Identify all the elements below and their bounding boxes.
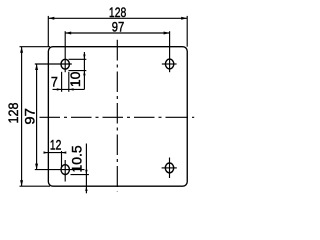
dimension 128 top: extension line left [47, 16, 49, 47]
hole bottom-left horizontal crosshair / extension [35, 169, 85, 171]
svg-text:10: 10 [67, 71, 83, 87]
dimension 10 (slot height): extension line top [69, 58, 87, 60]
svg-text:10.5: 10.5 [68, 145, 84, 172]
svg-text:97: 97 [112, 19, 125, 35]
dimension 7: right arrow (outside, pointing left) [69, 88, 74, 90]
dimension 10: top arrow (outside, pointing down) [83, 55, 85, 60]
dimension 10: dimension line vertical [83, 52, 85, 89]
centerline horizontal [40, 116, 195, 118]
plate outline [48, 47, 187, 187]
dimension 7: dimension line [53, 88, 85, 90]
dimension 12 (edge distance): extension line right [61, 151, 63, 167]
dimension 128 top: right arrow [181, 17, 187, 20]
dimension 7 (slot width): extension line left [61, 72, 63, 92]
hole bottom-right (slot 7x10) [165, 163, 173, 173]
dimension 12: dimension line [44, 152, 66, 154]
dimension 12: left arrow (outside, pointing right) [44, 151, 49, 153]
svg-text:128: 128 [109, 4, 127, 20]
hole bottom-left (slot 7x10) [61, 165, 69, 175]
dimension 97 top: dimension line [65, 32, 169, 34]
dimension 7: left arrow (outside, pointing right) [57, 88, 62, 90]
dimension 128 left: extension line bottom [20, 185, 51, 187]
dimension 128 left: dimension line [21, 47, 23, 187]
svg-text:12: 12 [50, 137, 62, 153]
hole bottom-left vertical crosshair [64, 160, 66, 182]
dimension 128 top: extension line right [186, 16, 188, 47]
dimension 10.5: dimension line vertical [85, 144, 87, 194]
dimension 97 top: right arrow [164, 32, 170, 35]
hole top-right vertical crosshair / 97 extension [169, 31, 171, 72]
hole top-left (slot 7x10) [61, 59, 69, 69]
hole top-right horizontal crosshair [162, 63, 177, 65]
centerline vertical [116, 40, 118, 192]
dimension 128 top: left arrow [48, 17, 54, 20]
dimension 10.5: top arrow (outside, pointing down) [85, 170, 87, 175]
hole bottom-right horizontal crosshair [162, 167, 177, 169]
dimension 128 left: top arrow [20, 47, 23, 53]
svg-text:128: 128 [5, 102, 21, 123]
dimension 128 left: bottom arrow [20, 180, 23, 186]
hole top-left vertical crosshair / 97 extension [64, 31, 66, 72]
svg-text:97: 97 [21, 108, 37, 125]
dimension 97 top: left arrow [65, 32, 71, 35]
dimension 7 (slot width): extension line right [68, 72, 70, 92]
dimension 97 left: dimension line [36, 64, 38, 170]
dimension 10 (slot height): extension line bottom [69, 70, 87, 72]
dimension 97 left: bottom arrow [35, 164, 38, 170]
dimension 10.5: bottom arrow (outside, pointing up) [85, 186, 87, 191]
hole top-left horizontal crosshair / 97 extension [35, 63, 72, 65]
dimension 10: bottom arrow (outside, pointing up) [83, 71, 85, 76]
hole top-right (slot 7x10) [165, 59, 173, 69]
dimension 128 top: dimension line [48, 17, 187, 19]
hole bottom-right vertical crosshair [169, 158, 171, 179]
dimension 12: right arrow (outside, pointing left) [62, 151, 67, 153]
svg-text:7: 7 [51, 74, 58, 90]
dimension 10.5 (edge distance): extension line top [71, 174, 89, 176]
dimension 97 left: top arrow [35, 64, 38, 70]
dimension 128 left: extension line top [20, 46, 51, 48]
